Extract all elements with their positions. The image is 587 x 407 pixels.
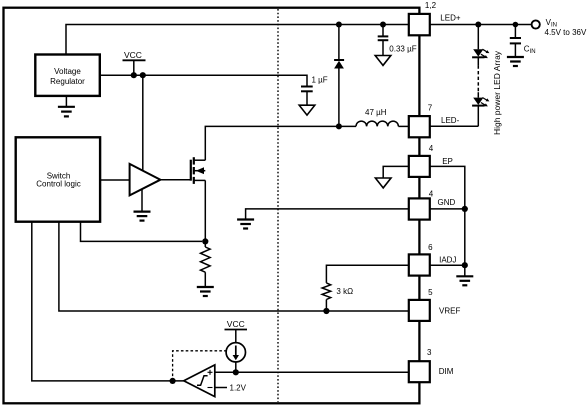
node 0.33uF junction xyxy=(380,22,386,28)
svg-text:LED+: LED+ xyxy=(440,14,461,23)
node GND junction xyxy=(462,206,468,212)
pin box VREF xyxy=(409,300,430,321)
ground below buffer xyxy=(134,189,151,220)
wire LED- to array xyxy=(430,125,479,127)
svg-text:DIM: DIM xyxy=(439,367,454,376)
pin box GND xyxy=(409,198,430,219)
wire inductor to LED- pin xyxy=(398,125,409,127)
wire SCL to sense node xyxy=(81,222,203,242)
wire drain to switch node xyxy=(205,126,356,160)
VCC supply symbol lower xyxy=(225,319,248,342)
resistor R1 3k xyxy=(322,283,331,300)
gate driver buffer xyxy=(130,164,161,196)
ground right side xyxy=(456,276,473,285)
wire VIN top rail xyxy=(66,25,409,55)
pin box EP xyxy=(409,156,430,177)
comparator U2 xyxy=(184,365,215,397)
node current source junction xyxy=(233,369,239,375)
wire VCC to buffer xyxy=(142,75,144,171)
svg-text:IADJ: IADJ xyxy=(439,256,456,265)
wire resistor to VREF rail xyxy=(325,300,327,312)
pin box LED+ xyxy=(409,14,430,35)
wire EP right loop down xyxy=(430,166,465,276)
dashed feedback path xyxy=(173,351,226,381)
svg-text:1 µF: 1 µF xyxy=(312,76,328,85)
wire GND right xyxy=(430,208,465,210)
capacitor CIN xyxy=(510,25,536,58)
svg-text:EP: EP xyxy=(442,157,453,166)
node LED array junction xyxy=(475,22,481,28)
wire SCL to buffer input xyxy=(100,179,130,181)
pin box IADJ xyxy=(409,254,430,275)
svg-text:Voltage: Voltage xyxy=(54,67,81,76)
svg-text:47 µH: 47 µH xyxy=(365,108,387,117)
wire SCL to comparator output xyxy=(32,222,184,381)
Switch Control logic block xyxy=(16,137,100,221)
svg-text:4: 4 xyxy=(429,190,434,199)
svg-text:GND: GND xyxy=(438,198,456,207)
ground below Rsense xyxy=(197,287,214,296)
svg-text:High power LED Array: High power LED Array xyxy=(492,50,502,135)
wire IADJ left to resistor xyxy=(326,265,408,283)
pin box DIM xyxy=(409,361,430,382)
IC outline box xyxy=(4,8,420,404)
transistor Q1 power MOSFET xyxy=(191,157,206,184)
svg-text:VCC: VCC xyxy=(227,319,245,329)
svg-text:3: 3 xyxy=(427,348,432,357)
node diode bottom junction xyxy=(336,123,342,129)
svg-text:3 kΩ: 3 kΩ xyxy=(336,287,353,296)
current source I1 xyxy=(226,343,245,362)
wire comparator plus input to DIM pin xyxy=(215,371,409,373)
LED D2 top of array xyxy=(472,25,489,59)
svg-text:VCC: VCC xyxy=(124,50,142,60)
Voltage Regulator U1 xyxy=(35,55,100,96)
minus sign xyxy=(208,387,213,389)
wire dashed LED array continuation xyxy=(477,57,479,65)
node IADJ junction xyxy=(462,262,468,268)
svg-text:LED-: LED- xyxy=(441,116,460,125)
plus sign xyxy=(208,370,213,375)
ground internal xyxy=(237,220,254,229)
wire GND left to ground xyxy=(246,209,409,220)
wire minus input stub xyxy=(215,387,227,389)
capacitor 1uF xyxy=(301,76,328,106)
node diode top junction xyxy=(336,22,342,28)
ground open triangle below 1uF xyxy=(299,105,315,115)
wire LED+ to VIN xyxy=(430,24,532,26)
ground open triangle EP xyxy=(375,178,391,188)
LED D3 bottom of array xyxy=(472,98,489,127)
internal/module dotted boundary line xyxy=(277,9,279,402)
wire EP to ground xyxy=(383,166,409,178)
wire current source to DIM wire xyxy=(235,362,237,372)
svg-text:4.5V to 36V: 4.5V to 36V xyxy=(545,28,587,37)
svg-text:0.33 µF: 0.33 µF xyxy=(389,45,416,54)
ground below voltage regulator xyxy=(58,96,75,117)
ground open triangle below 0.33uF xyxy=(375,56,391,66)
wire resistor to ground xyxy=(204,272,206,287)
node 3k junction xyxy=(323,308,329,314)
wire buffer to gate xyxy=(160,179,190,181)
capacitor 0.33uF xyxy=(378,25,417,56)
node source sense junction xyxy=(202,238,208,244)
wire source down xyxy=(204,180,206,247)
wire SCL to VREF pin xyxy=(59,222,409,311)
svg-text:VREF: VREF xyxy=(439,307,460,316)
hysteresis symbol xyxy=(197,376,208,386)
terminal VIN xyxy=(532,20,540,28)
svg-text:1,2: 1,2 xyxy=(425,1,437,10)
ground below CIN xyxy=(507,57,524,66)
svg-text:1.2V: 1.2V xyxy=(230,384,247,393)
svg-text:7: 7 xyxy=(428,103,433,112)
wire IADJ right xyxy=(430,264,465,266)
resistor Rsense xyxy=(201,247,211,272)
svg-text:Control logic: Control logic xyxy=(36,180,80,189)
pin box LED- xyxy=(409,116,430,137)
svg-text:6: 6 xyxy=(428,243,433,252)
node comparator output junction xyxy=(170,378,176,384)
node CIN junction xyxy=(513,22,519,28)
svg-text:4: 4 xyxy=(429,144,434,153)
svg-text:5: 5 xyxy=(428,288,433,297)
diode D1 catch diode xyxy=(334,25,344,127)
node VCC junction dots xyxy=(131,72,137,78)
inductor L1 47uH xyxy=(356,121,398,126)
svg-text:Regulator: Regulator xyxy=(50,77,85,86)
wire VCC rail xyxy=(100,75,307,86)
VCC supply symbol xyxy=(123,50,146,75)
